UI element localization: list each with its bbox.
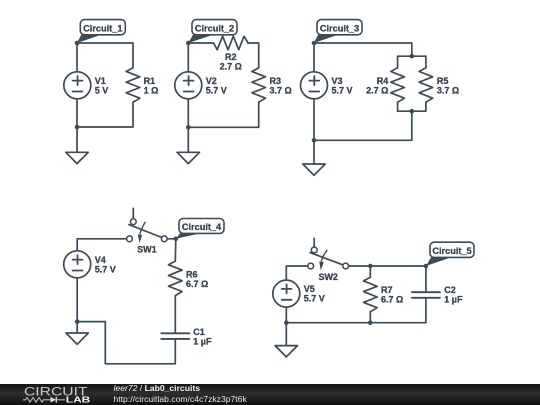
wire xyxy=(77,43,133,68)
wire xyxy=(187,99,189,128)
svg-text:Circuit_3: Circuit_3 xyxy=(320,23,359,33)
wire xyxy=(286,266,308,280)
node junction bottom Circuit_3 xyxy=(312,138,317,143)
node junction parallel top xyxy=(410,54,415,59)
wire xyxy=(188,42,213,44)
resistor R2 xyxy=(214,36,249,71)
wire xyxy=(425,56,427,68)
wire xyxy=(425,102,427,111)
svg-text:Circuit_5: Circuit_5 xyxy=(432,246,471,256)
switch SW2 xyxy=(308,238,349,282)
svg-text:R4: R4 xyxy=(377,76,389,86)
voltage source V5 xyxy=(273,280,325,307)
footer url xyxy=(114,394,247,404)
node junction top Circuit_3 xyxy=(312,41,317,46)
svg-text:C2: C2 xyxy=(444,285,456,295)
node label Circuit_4 xyxy=(176,219,224,239)
wire xyxy=(398,55,426,57)
voltage source V3 xyxy=(301,72,353,99)
node junction parallel bottom xyxy=(410,109,415,114)
svg-text:R7: R7 xyxy=(381,285,393,295)
node label Circuit_2 xyxy=(188,20,237,43)
wire xyxy=(76,99,78,127)
wire xyxy=(369,266,371,277)
ground xyxy=(303,164,325,175)
wire xyxy=(174,239,177,261)
node label Circuit_1 xyxy=(77,20,125,43)
svg-text:LAB: LAB xyxy=(66,395,91,405)
wire xyxy=(76,278,78,333)
node junction top Circuit_2 xyxy=(186,41,191,46)
svg-text:5.7 V: 5.7 V xyxy=(95,264,116,274)
resistor R6 xyxy=(169,261,209,296)
wire xyxy=(286,298,426,323)
node junction bottom R7 xyxy=(368,320,373,325)
voltage source V1 xyxy=(64,72,109,99)
node junction bottom Circuit_1 xyxy=(75,125,80,130)
footer title xyxy=(114,383,200,393)
svg-text:V2: V2 xyxy=(206,76,217,86)
resistor R5 xyxy=(419,68,459,102)
ground xyxy=(275,346,297,357)
svg-text:SW1: SW1 xyxy=(137,245,157,255)
ground xyxy=(66,333,88,344)
resistor R4 xyxy=(366,68,404,102)
svg-text:6.7 Ω: 6.7 Ω xyxy=(381,295,403,305)
svg-text:C1: C1 xyxy=(193,327,205,337)
resistor R7 xyxy=(364,277,404,312)
wire xyxy=(313,43,315,72)
svg-text:SW2: SW2 xyxy=(318,272,338,282)
wire xyxy=(187,127,189,152)
svg-text:R5: R5 xyxy=(437,76,449,86)
svg-text:1 µF: 1 µF xyxy=(444,295,463,305)
node junction Circuit_5 xyxy=(424,264,429,269)
ground xyxy=(177,152,199,163)
svg-text:Circuit_1: Circuit_1 xyxy=(83,23,122,33)
wire xyxy=(425,266,427,292)
wire xyxy=(77,322,175,364)
svg-text:2.7 Ω: 2.7 Ω xyxy=(220,62,242,72)
wire xyxy=(314,43,412,56)
svg-text:1 µF: 1 µF xyxy=(193,337,212,347)
wire xyxy=(313,140,315,164)
wire xyxy=(285,307,287,323)
wire xyxy=(77,102,133,127)
svg-text:R3: R3 xyxy=(270,76,282,86)
svg-text:Circuit_4: Circuit_4 xyxy=(182,222,222,232)
svg-text:6.7 Ω: 6.7 Ω xyxy=(186,279,208,289)
voltage source V2 xyxy=(175,72,227,99)
node label Circuit_5 xyxy=(426,242,474,266)
wire xyxy=(76,127,78,152)
svg-text:5.7 V: 5.7 V xyxy=(206,85,227,95)
svg-text:5.7 V: 5.7 V xyxy=(304,294,325,304)
wire xyxy=(369,312,371,323)
ground xyxy=(66,152,88,163)
node junction bottom V5 xyxy=(284,320,289,325)
svg-text:Circuit_2: Circuit_2 xyxy=(195,23,234,33)
capacitor C2 xyxy=(412,285,463,305)
wire xyxy=(397,102,399,111)
svg-text:R2: R2 xyxy=(225,52,237,62)
svg-text:5 V: 5 V xyxy=(95,85,109,95)
svg-text:3.7 Ω: 3.7 Ω xyxy=(270,85,292,95)
capacitor C1 xyxy=(161,327,212,347)
wire xyxy=(248,43,259,68)
svg-text:3.7 Ω: 3.7 Ω xyxy=(437,85,459,95)
svg-text:R6: R6 xyxy=(186,269,198,279)
wire xyxy=(349,265,426,267)
svg-text:2.7 Ω: 2.7 Ω xyxy=(366,85,388,95)
svg-text:R1: R1 xyxy=(144,76,156,86)
footer bar xyxy=(0,384,540,405)
svg-text:1 Ω: 1 Ω xyxy=(144,85,159,95)
node junction bottom Circuit_2 xyxy=(186,125,191,130)
node label Circuit_3 xyxy=(314,20,362,43)
svg-text:5.7 V: 5.7 V xyxy=(332,85,353,95)
wire xyxy=(188,102,258,127)
node junction Circuit_4 xyxy=(174,237,179,242)
wire xyxy=(398,110,426,112)
node junction top Circuit_1 xyxy=(75,41,80,46)
wire xyxy=(76,43,78,72)
wire xyxy=(174,296,176,334)
svg-text:V4: V4 xyxy=(95,255,106,265)
wire xyxy=(397,56,399,68)
node junction R7 top xyxy=(368,264,373,269)
CircuitLab logo xyxy=(0,382,100,405)
node junction bottom Circuit_4 xyxy=(75,319,80,324)
resistor R1 xyxy=(126,68,158,102)
wire xyxy=(313,99,315,141)
wire xyxy=(167,238,176,240)
svg-text:V1: V1 xyxy=(95,76,106,86)
wire xyxy=(285,323,287,346)
resistor R3 xyxy=(252,68,292,102)
voltage source V4 xyxy=(64,251,116,278)
svg-text:V3: V3 xyxy=(332,76,343,86)
wire xyxy=(77,239,126,251)
svg-text:V5: V5 xyxy=(304,284,315,294)
wire xyxy=(187,43,189,72)
switch SW1 xyxy=(127,208,168,254)
wire xyxy=(314,111,412,140)
